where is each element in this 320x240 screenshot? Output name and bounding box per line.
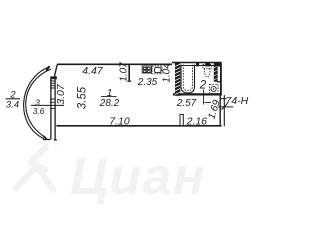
svg-text:4.47: 4.47 <box>82 65 104 77</box>
svg-text:2.57: 2.57 <box>176 98 197 109</box>
svg-text:Циан: Циан <box>70 148 206 206</box>
svg-text:3.55: 3.55 <box>77 86 89 109</box>
svg-text:3.4: 3.4 <box>6 100 19 111</box>
svg-text:7.10: 7.10 <box>109 115 130 127</box>
svg-text:3.07: 3.07 <box>55 83 67 105</box>
svg-text:1.04: 1.04 <box>162 63 173 83</box>
svg-text:2.16: 2.16 <box>186 116 208 128</box>
svg-text:74-Н: 74-Н <box>226 95 249 107</box>
svg-text:1.07: 1.07 <box>119 62 130 82</box>
svg-text:28.2: 28.2 <box>99 98 120 109</box>
svg-text:3.6: 3.6 <box>33 106 45 116</box>
svg-text:2.35: 2.35 <box>137 77 158 88</box>
svg-text:2: 2 <box>199 79 207 91</box>
